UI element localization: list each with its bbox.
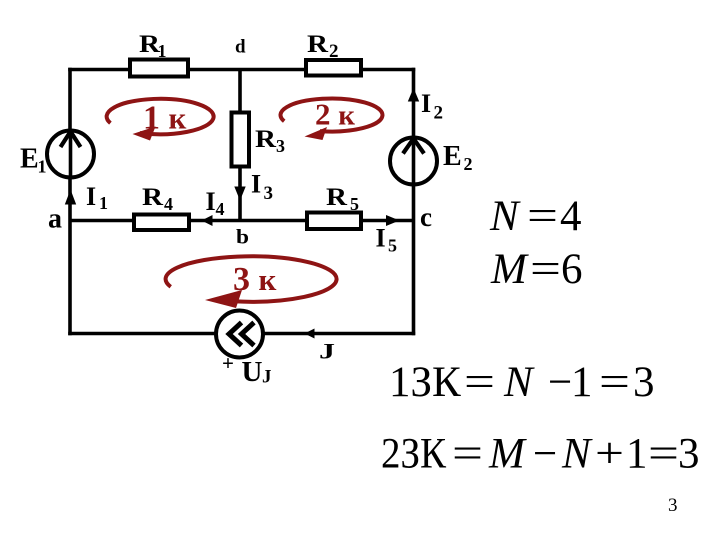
arrow I3 (down, on middle vertical wire) [234,187,245,201]
svg-text:5: 5 [350,194,359,214]
resistor R5 [307,213,361,230]
svg-text:3: 3 [264,183,274,204]
svg-text:1: 1 [158,41,167,61]
E2 arrow chevron [403,139,424,154]
mesh loop 3 arc [166,256,337,302]
E1 arrow chevron [61,132,81,148]
svg-text:4: 4 [216,199,225,219]
current source chevron 2 [242,323,255,346]
resistor R2 [306,60,361,76]
arrow I1 (up, on left wire) [65,190,76,205]
svg-text:1: 1 [99,193,108,213]
svg-text:I: I [206,187,216,216]
arrow I2 (up, on right wire) [408,88,419,102]
wire right (E2 branch) [412,68,416,336]
svg-text:3: 3 [276,136,285,156]
svg-text:I: I [421,89,431,118]
svg-text:U: U [242,356,263,388]
svg-text:4: 4 [164,194,173,214]
wire top (d node rail) [68,68,415,72]
svg-text:J: J [319,339,335,364]
mesh loop 2 arc [280,99,382,132]
wire bottom (current source rail) [68,332,415,336]
voltage source E2 circle [390,138,437,185]
voltage source E1 circle [47,131,94,178]
svg-text:E: E [20,144,39,175]
svg-text:I: I [86,182,96,211]
svg-text:1 к: 1 к [143,100,187,137]
svg-text:R: R [326,184,348,211]
svg-text:I: I [251,170,261,199]
current source J circle [216,311,263,358]
svg-text:R: R [255,126,277,153]
svg-text:M=6: M=6 [490,246,583,293]
current source chevron 1 [229,323,242,346]
mesh loop 1 arrowhead [133,127,156,141]
E1 internal wire [69,131,73,177]
svg-text:2ЗК=M−N+1=3: 2ЗК=M−N+1=3 [381,431,700,478]
svg-text:c: c [420,202,432,232]
mesh loop 2 arrowhead [305,127,328,140]
svg-text:3 к: 3 к [233,261,277,298]
svg-text:2: 2 [329,41,339,62]
svg-text:2 к: 2 к [315,97,355,132]
svg-text:d: d [235,37,246,58]
svg-text:R: R [142,184,164,211]
svg-text:N=4: N=4 [489,193,582,240]
svg-text:1: 1 [38,157,47,177]
resistor R3 [232,113,250,167]
svg-text:E: E [443,141,462,172]
svg-text:2: 2 [464,154,473,174]
arrow I5 (right, on middle wire) [386,215,400,226]
E2 internal wire [412,138,416,184]
wire middle horizontal a-b-c [70,219,414,223]
svg-text:5: 5 [388,236,397,256]
svg-text:a: a [48,204,62,235]
svg-text:1ЗК=N−1=3: 1ЗК=N−1=3 [389,359,655,406]
svg-text:J: J [262,367,272,388]
mesh loop 3 arrowhead [205,290,242,308]
resistor R4 [134,215,189,231]
wire middle vertical d-b [238,70,242,221]
svg-text:3: 3 [668,495,678,516]
wire left (E1 branch) [68,68,72,336]
arrow I4 (left, on middle wire) [202,215,213,226]
svg-text:b: b [236,225,249,249]
arrow J (left, on bottom wire) [305,329,315,339]
svg-text:R: R [307,31,329,58]
mesh loop 1 arc [107,99,214,135]
svg-text:+: + [222,351,234,375]
svg-text:2: 2 [434,103,444,124]
svg-text:I: I [376,224,386,253]
resistor R1 [130,60,188,77]
